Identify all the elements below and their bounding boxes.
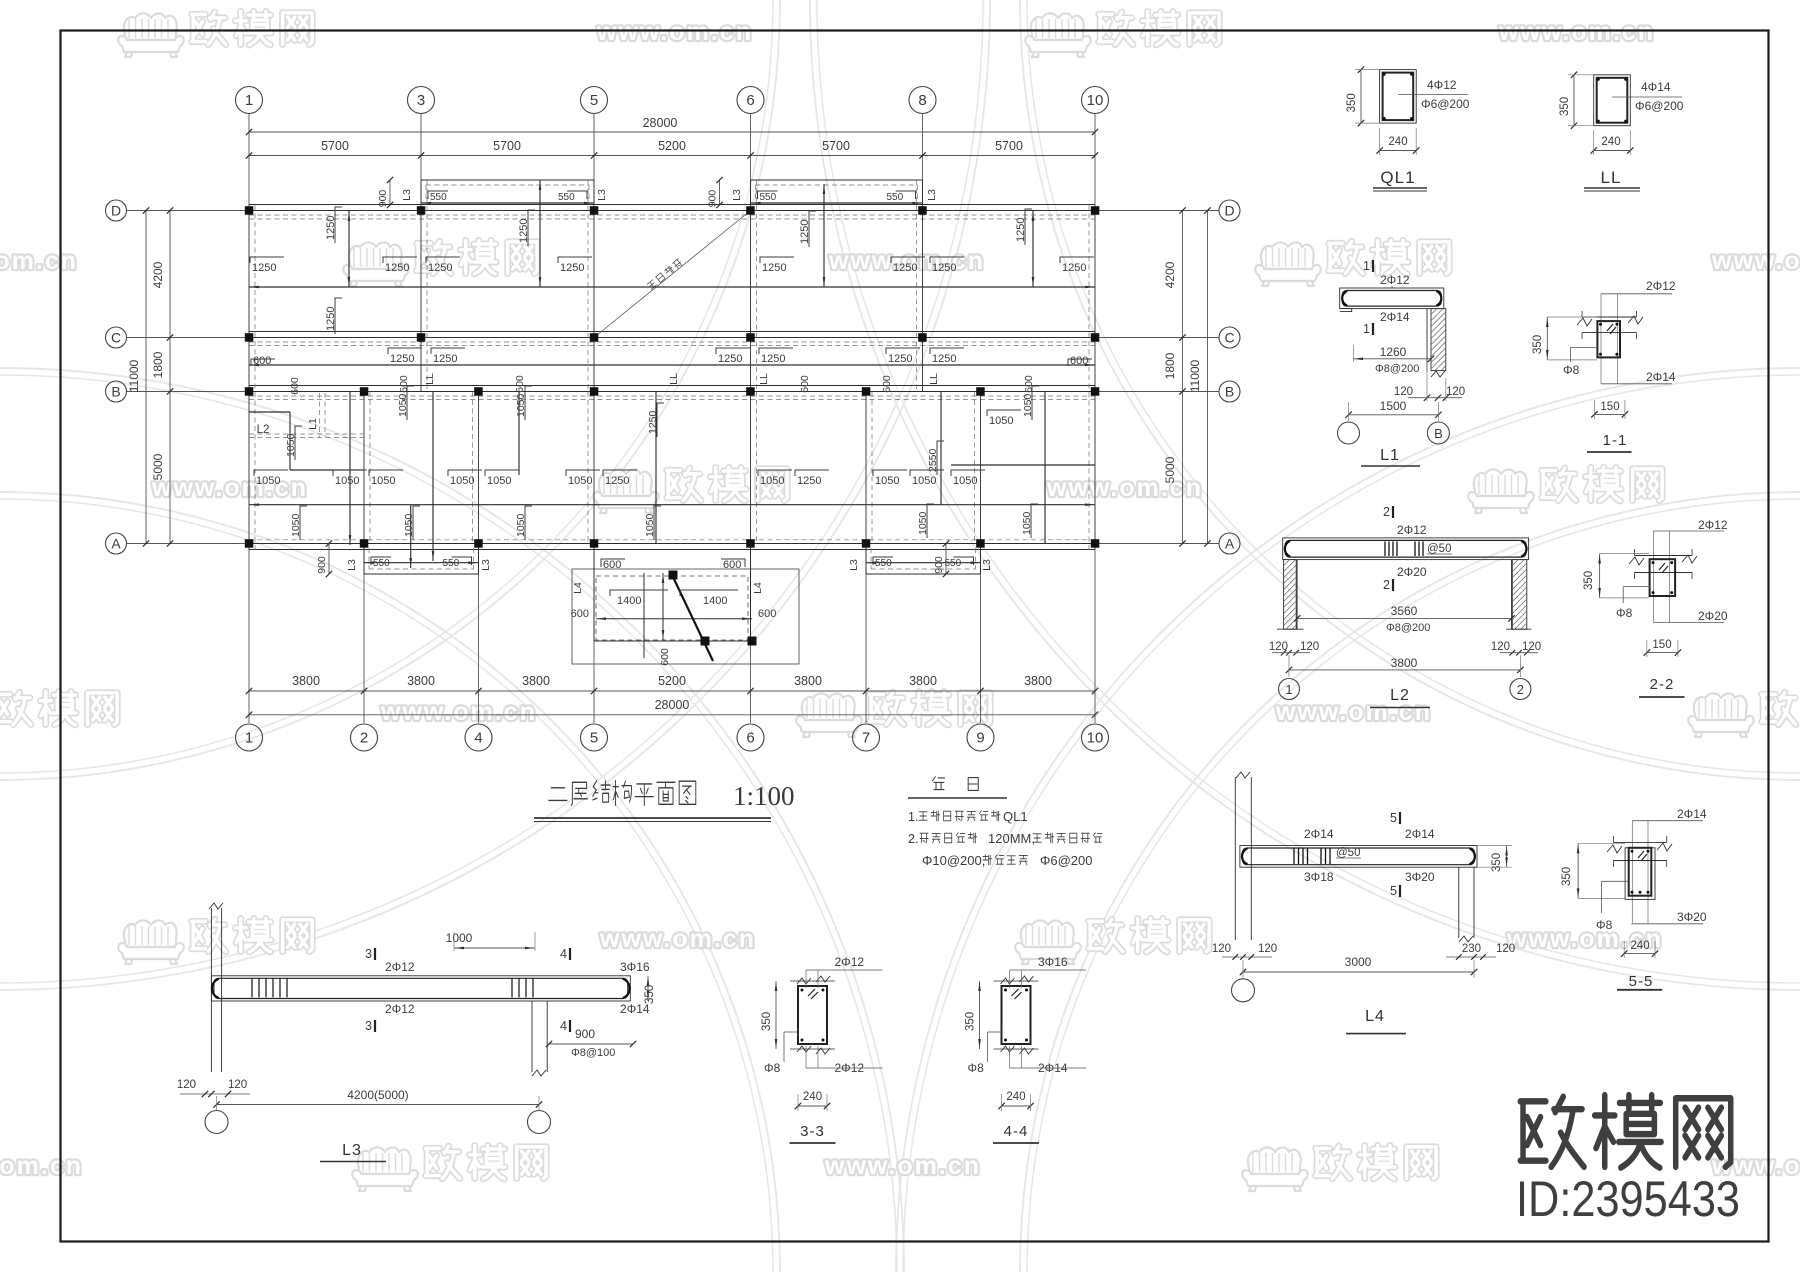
svg-text:2: 2 [1383,505,1390,519]
svg-text:600: 600 [799,375,811,393]
svg-text:Φ8@100: Φ8@100 [571,1047,615,1059]
svg-text:5-5: 5-5 [1629,973,1654,990]
svg-text:550: 550 [875,558,892,569]
svg-text:1050: 1050 [285,433,297,457]
svg-text:2Φ12: 2Φ12 [1698,518,1728,532]
svg-text:120: 120 [1522,641,1541,653]
svg-text:Φ8: Φ8 [1563,363,1580,377]
svg-text:28000: 28000 [655,698,690,712]
svg-text:1050: 1050 [1022,393,1034,417]
svg-text:QL1: QL1 [1380,168,1415,187]
svg-text:120: 120 [1300,641,1319,653]
svg-text:900: 900 [575,1027,595,1041]
svg-text:1250: 1250 [932,262,956,274]
svg-text:11000: 11000 [1188,359,1202,392]
svg-text:4Φ12: 4Φ12 [1427,78,1457,92]
svg-text:1250: 1250 [797,475,821,487]
svg-text:B: B [111,384,120,400]
svg-text:1250: 1250 [762,262,786,274]
svg-text:600: 600 [289,377,301,395]
svg-text:900: 900 [316,556,328,574]
svg-text:150: 150 [1652,639,1671,651]
svg-text:550: 550 [760,192,777,203]
svg-text:5000: 5000 [151,453,165,480]
svg-text:900: 900 [933,556,945,574]
svg-text:4: 4 [560,947,567,961]
svg-text:600: 600 [571,608,589,620]
svg-text:8: 8 [918,92,926,109]
svg-text:A: A [1225,536,1235,552]
svg-text:120MM,: 120MM, [988,831,1035,846]
svg-text:7: 7 [862,730,870,747]
svg-text:1250: 1250 [932,353,956,365]
svg-text:L3: L3 [480,559,492,571]
svg-text:4200: 4200 [1163,261,1177,288]
svg-text:4: 4 [474,730,482,747]
svg-text:230: 230 [1462,943,1481,955]
svg-text:2Φ14: 2Φ14 [1646,370,1676,384]
svg-text:2Φ12: 2Φ12 [385,960,415,974]
svg-text:3: 3 [365,947,372,961]
svg-text:600: 600 [723,559,741,571]
svg-text:B: B [1434,426,1443,441]
svg-text:600: 600 [881,375,893,393]
svg-text:900: 900 [707,190,719,208]
svg-text:2Φ14: 2Φ14 [1405,827,1435,841]
svg-text:3560: 3560 [1391,604,1418,618]
svg-text:5700: 5700 [995,139,1023,153]
svg-text:10: 10 [1087,730,1104,747]
svg-text:4-4: 4-4 [1004,1123,1029,1140]
svg-text:LL: LL [1601,168,1622,187]
svg-text:www.om.cn: www.om.cn [151,474,308,502]
svg-text:LL: LL [758,373,770,385]
svg-text:www.om.cn: www.om.cn [380,698,537,726]
svg-text:350: 350 [644,985,656,1004]
svg-text:LL: LL [668,373,680,385]
svg-text:1250: 1250 [647,410,659,434]
svg-text:1250: 1250 [252,262,276,274]
svg-text:350: 350 [1491,853,1503,872]
svg-text:www.om.cn: www.om.cn [0,1152,83,1180]
svg-text:350: 350 [761,1012,773,1031]
svg-text:1.: 1. [908,810,918,824]
svg-text:A: A [111,536,121,552]
svg-text:10: 10 [1087,92,1104,109]
svg-text:4200(5000): 4200(5000) [347,1088,408,1102]
svg-text:QL1: QL1 [1003,809,1028,824]
svg-text:5200: 5200 [658,674,686,688]
svg-text:Φ8: Φ8 [1596,918,1613,932]
svg-text:L4: L4 [752,582,764,594]
svg-text:120: 120 [1491,641,1510,653]
svg-text:240: 240 [1006,1091,1025,1103]
svg-text:B: B [1225,384,1234,400]
svg-text:6: 6 [746,730,754,747]
svg-text:1: 1 [245,730,253,747]
svg-text:120: 120 [1446,386,1465,398]
svg-text:1250: 1250 [893,262,917,274]
svg-text:1: 1 [1363,322,1370,336]
svg-text:5700: 5700 [321,139,349,153]
svg-text:2Φ20: 2Φ20 [1397,565,1427,579]
svg-text:1050: 1050 [371,475,395,487]
svg-text:2Φ12: 2Φ12 [1380,273,1410,287]
svg-text:5200: 5200 [658,139,686,153]
svg-text:5: 5 [590,730,598,747]
svg-text:3800: 3800 [909,674,937,688]
svg-text:1050: 1050 [644,513,656,537]
svg-text:3800: 3800 [1391,656,1418,670]
svg-text:1250: 1250 [385,262,409,274]
svg-text:2-2: 2-2 [1650,676,1675,693]
svg-text:C: C [1224,330,1234,346]
svg-text:350: 350 [965,1012,977,1031]
svg-text:1250: 1250 [390,353,414,365]
svg-text:2Φ12: 2Φ12 [1397,523,1427,537]
svg-text:L4: L4 [572,582,584,594]
svg-text:5000: 5000 [1163,456,1177,483]
svg-text:5: 5 [1390,811,1397,825]
svg-text:3Φ18: 3Φ18 [1304,870,1334,884]
svg-text:2Φ14: 2Φ14 [1677,807,1707,821]
svg-text:1050: 1050 [875,475,899,487]
svg-text:2Φ12: 2Φ12 [835,955,865,969]
svg-text:1050: 1050 [256,475,280,487]
svg-text:1250: 1250 [433,353,457,365]
svg-text:C: C [111,330,121,346]
svg-text:350: 350 [1532,335,1544,354]
svg-text:1250: 1250 [428,262,452,274]
svg-text:240: 240 [803,1091,822,1103]
svg-text:L3: L3 [981,559,993,571]
svg-text:L4: L4 [1365,1008,1385,1025]
svg-text:1050: 1050 [760,475,784,487]
svg-text:1050: 1050 [912,475,936,487]
svg-text:5700: 5700 [822,139,850,153]
svg-text:2Φ20: 2Φ20 [1698,609,1728,623]
svg-text:900: 900 [377,190,389,208]
svg-text:www.om.cn: www.om.cn [596,18,753,46]
svg-text:2: 2 [1383,578,1390,592]
svg-text:L2: L2 [1390,687,1410,704]
svg-text:L3: L3 [346,559,358,571]
svg-text:1250: 1250 [1015,218,1027,242]
svg-text:1050: 1050 [397,393,409,417]
svg-text:1250: 1250 [799,220,811,244]
svg-text:5700: 5700 [493,139,521,153]
svg-text:240: 240 [1630,940,1649,952]
svg-text:Φ8@200: Φ8@200 [1386,622,1430,634]
svg-text:Φ6@200: Φ6@200 [1421,97,1470,111]
svg-text:600: 600 [1023,375,1035,393]
svg-text:600: 600 [659,648,671,666]
svg-text:Φ8@200: Φ8@200 [1375,363,1419,375]
svg-text:D: D [111,203,121,219]
svg-text:1050: 1050 [1021,511,1033,535]
svg-text:1050: 1050 [568,475,592,487]
svg-text:@50: @50 [1427,543,1451,555]
svg-text:120: 120 [1258,943,1277,955]
svg-text:1: 1 [245,92,253,109]
svg-text:Φ8: Φ8 [1616,606,1633,620]
svg-text:4200: 4200 [151,261,165,288]
svg-text:28000: 28000 [643,116,678,130]
svg-text:1: 1 [1363,259,1370,273]
svg-text:240: 240 [1388,136,1407,148]
svg-text:3-3: 3-3 [800,1123,825,1140]
svg-text:2: 2 [360,730,368,747]
svg-text:3800: 3800 [1024,674,1052,688]
svg-text:www.om.cn: www.om.cn [0,247,78,275]
svg-text:L3: L3 [926,189,938,201]
svg-text:1250: 1250 [888,353,912,365]
svg-text:550: 550 [945,558,962,569]
svg-text:4Φ14: 4Φ14 [1641,80,1671,94]
svg-text:www.om.cn: www.om.cn [1046,474,1203,502]
svg-text:1400: 1400 [617,595,641,607]
svg-text:Φ8: Φ8 [968,1061,985,1075]
svg-text:2Φ12: 2Φ12 [1646,279,1676,293]
svg-text:600: 600 [758,608,776,620]
svg-text:LL: LL [424,373,436,385]
svg-text:1250: 1250 [1062,262,1086,274]
svg-text:L3: L3 [342,1142,362,1159]
svg-text:1250: 1250 [325,307,337,331]
svg-text:1000: 1000 [446,931,473,945]
svg-text:L2: L2 [257,424,270,436]
svg-text:1050: 1050 [515,393,527,417]
svg-text:5: 5 [590,92,598,109]
svg-text:1250: 1250 [718,353,742,365]
svg-text:150: 150 [1600,401,1619,413]
svg-text:1050: 1050 [450,475,474,487]
svg-text:600: 600 [514,375,526,393]
svg-text:350: 350 [1559,97,1571,116]
svg-text:600: 600 [1070,355,1088,367]
svg-text:2Φ14: 2Φ14 [1304,827,1334,841]
svg-text:www.om.cn: www.om.cn [824,1152,981,1180]
svg-text:1050: 1050 [917,511,929,535]
svg-text:L1: L1 [307,418,319,430]
svg-text:6: 6 [746,92,754,109]
svg-text:120: 120 [1212,943,1231,955]
svg-text:ID:2395433: ID:2395433 [1516,1171,1740,1227]
svg-text:Φ8: Φ8 [764,1061,781,1075]
svg-text:1800: 1800 [151,351,165,378]
svg-text:3000: 3000 [1345,955,1372,969]
svg-text:1050: 1050 [989,415,1013,427]
svg-text:1050: 1050 [953,475,977,487]
svg-text:600: 600 [398,375,410,393]
svg-text:www.om.cn: www.om.cn [1711,247,1800,275]
svg-text:3800: 3800 [292,674,320,688]
svg-text:1400: 1400 [703,595,727,607]
svg-text:1250: 1250 [325,216,337,240]
svg-text:Φ10@200,: Φ10@200, [922,853,985,868]
svg-text:1250: 1250 [761,353,785,365]
svg-text:1050: 1050 [335,475,359,487]
svg-text:2550: 2550 [927,448,939,472]
svg-text:3: 3 [365,1019,372,1033]
svg-text:5: 5 [1390,884,1397,898]
svg-text:Φ6@200: Φ6@200 [1635,99,1684,113]
svg-text:600: 600 [253,355,271,367]
svg-text:L3: L3 [596,189,608,201]
svg-text:3Φ20: 3Φ20 [1405,870,1435,884]
svg-text:2: 2 [1517,682,1524,697]
svg-text:1050: 1050 [487,475,511,487]
svg-text:1:100: 1:100 [733,781,795,811]
svg-text:550: 550 [373,558,390,569]
svg-text:L3: L3 [848,559,860,571]
svg-text:350: 350 [1561,867,1573,886]
svg-text:1050: 1050 [515,513,527,537]
svg-text:www.om.cn: www.om.cn [599,925,756,953]
svg-text:240: 240 [1601,136,1620,148]
svg-text:3Φ16: 3Φ16 [1038,955,1068,969]
svg-text:1260: 1260 [1380,345,1407,359]
svg-text:1250: 1250 [560,262,584,274]
svg-text:@50: @50 [1336,847,1360,859]
svg-text:3800: 3800 [794,674,822,688]
svg-text:350: 350 [1583,571,1595,590]
svg-text:1050: 1050 [290,513,302,537]
svg-text:1250: 1250 [605,475,629,487]
svg-text:1800: 1800 [1163,352,1177,379]
svg-text:550: 550 [443,558,460,569]
svg-text:600: 600 [603,559,621,571]
svg-text:www.om.cn: www.om.cn [1498,18,1655,46]
svg-text:550: 550 [430,192,447,203]
svg-text:1050: 1050 [403,513,415,537]
svg-text:L3: L3 [731,189,743,201]
svg-text:Φ6@200: Φ6@200 [1040,853,1093,868]
svg-text:4: 4 [560,1019,567,1033]
svg-text:120: 120 [1394,386,1413,398]
svg-text:1-1: 1-1 [1603,432,1628,449]
svg-text:1: 1 [1285,682,1292,697]
svg-text:LL: LL [928,373,940,385]
svg-text:2Φ14: 2Φ14 [1380,310,1410,324]
svg-text:D: D [1224,203,1234,219]
svg-text:550: 550 [558,192,575,203]
svg-text:1250: 1250 [518,219,530,243]
svg-text:350: 350 [1346,93,1358,112]
svg-text:2Φ12: 2Φ12 [385,1002,415,1016]
svg-text:120: 120 [177,1079,196,1091]
svg-text:L1: L1 [1380,447,1400,464]
svg-text:1500: 1500 [1380,399,1407,413]
svg-text:550: 550 [887,192,904,203]
svg-text:3: 3 [417,92,425,109]
svg-text:L3: L3 [401,189,413,201]
svg-text:3Φ16: 3Φ16 [620,960,650,974]
svg-text:11000: 11000 [127,359,141,392]
svg-text:120: 120 [228,1079,247,1091]
svg-text:9: 9 [976,730,984,747]
svg-text:3Φ20: 3Φ20 [1677,910,1707,924]
svg-text:2.: 2. [908,832,918,846]
svg-text:3800: 3800 [407,674,435,688]
svg-text:3800: 3800 [522,674,550,688]
svg-text:120: 120 [1496,943,1515,955]
